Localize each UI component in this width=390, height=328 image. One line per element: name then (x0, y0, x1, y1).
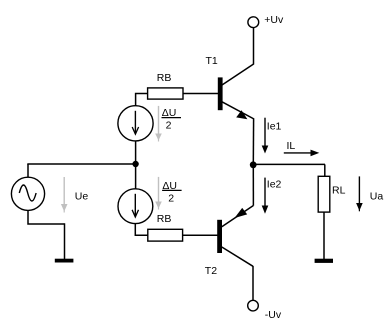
voltage arrow dU/2 upper (155, 106, 162, 142)
ground (315, 259, 333, 263)
wire (135, 164, 137, 189)
transistor T1 (218, 64, 254, 119)
voltage source dU/2 upper (118, 106, 153, 141)
svg-text:+Uv: +Uv (264, 14, 284, 26)
wire (253, 163, 325, 165)
svg-text:T1: T1 (206, 55, 218, 67)
label dU/2 upper (162, 107, 182, 132)
wire (27, 164, 29, 177)
svg-text:Ue: Ue (75, 191, 89, 203)
resistor RB lower (148, 229, 183, 241)
wire (324, 164, 326, 176)
wire (323, 212, 325, 259)
wire (252, 165, 254, 206)
svg-text:Ie1: Ie1 (267, 120, 282, 132)
svg-text:T2: T2 (205, 265, 217, 277)
wire (135, 223, 148, 235)
wire (183, 93, 219, 95)
voltage arrow Ue (61, 177, 68, 213)
wire (252, 266, 254, 300)
svg-text:2: 2 (166, 120, 172, 132)
wire (135, 141, 137, 164)
svg-text:RB: RB (157, 213, 172, 225)
svg-text:Ie2: Ie2 (267, 179, 282, 191)
svg-text:Ua: Ua (370, 190, 384, 202)
svg-text:2: 2 (168, 192, 174, 204)
wire (252, 119, 254, 166)
terminal +Uv (248, 17, 259, 28)
wire (28, 210, 65, 224)
voltage arrow dU/2 lower (155, 177, 162, 210)
svg-text:-Uv: -Uv (265, 309, 282, 321)
ground (55, 259, 74, 263)
AC source Ue (11, 177, 44, 210)
node B (output junction) (250, 161, 257, 168)
current arrow IL (284, 150, 320, 157)
resistor RB upper (148, 88, 183, 99)
resistor RL (318, 176, 330, 212)
wire (27, 163, 136, 165)
wire (183, 234, 218, 236)
current arrow Ie1 (262, 118, 269, 154)
wire (64, 223, 66, 259)
svg-text:RB: RB (157, 72, 172, 84)
current arrow Ie2 (262, 178, 269, 214)
node A (input junction) (132, 161, 138, 167)
transistor T2 (217, 206, 253, 267)
label dU/2 lower (162, 180, 182, 205)
wire (253, 28, 255, 65)
svg-text:RL: RL (332, 184, 346, 196)
svg-text:IL: IL (287, 140, 296, 152)
voltage arrow Ua (356, 176, 363, 211)
voltage source dU/2 lower (118, 189, 153, 224)
wire (136, 94, 148, 106)
terminal -Uv (248, 300, 259, 311)
